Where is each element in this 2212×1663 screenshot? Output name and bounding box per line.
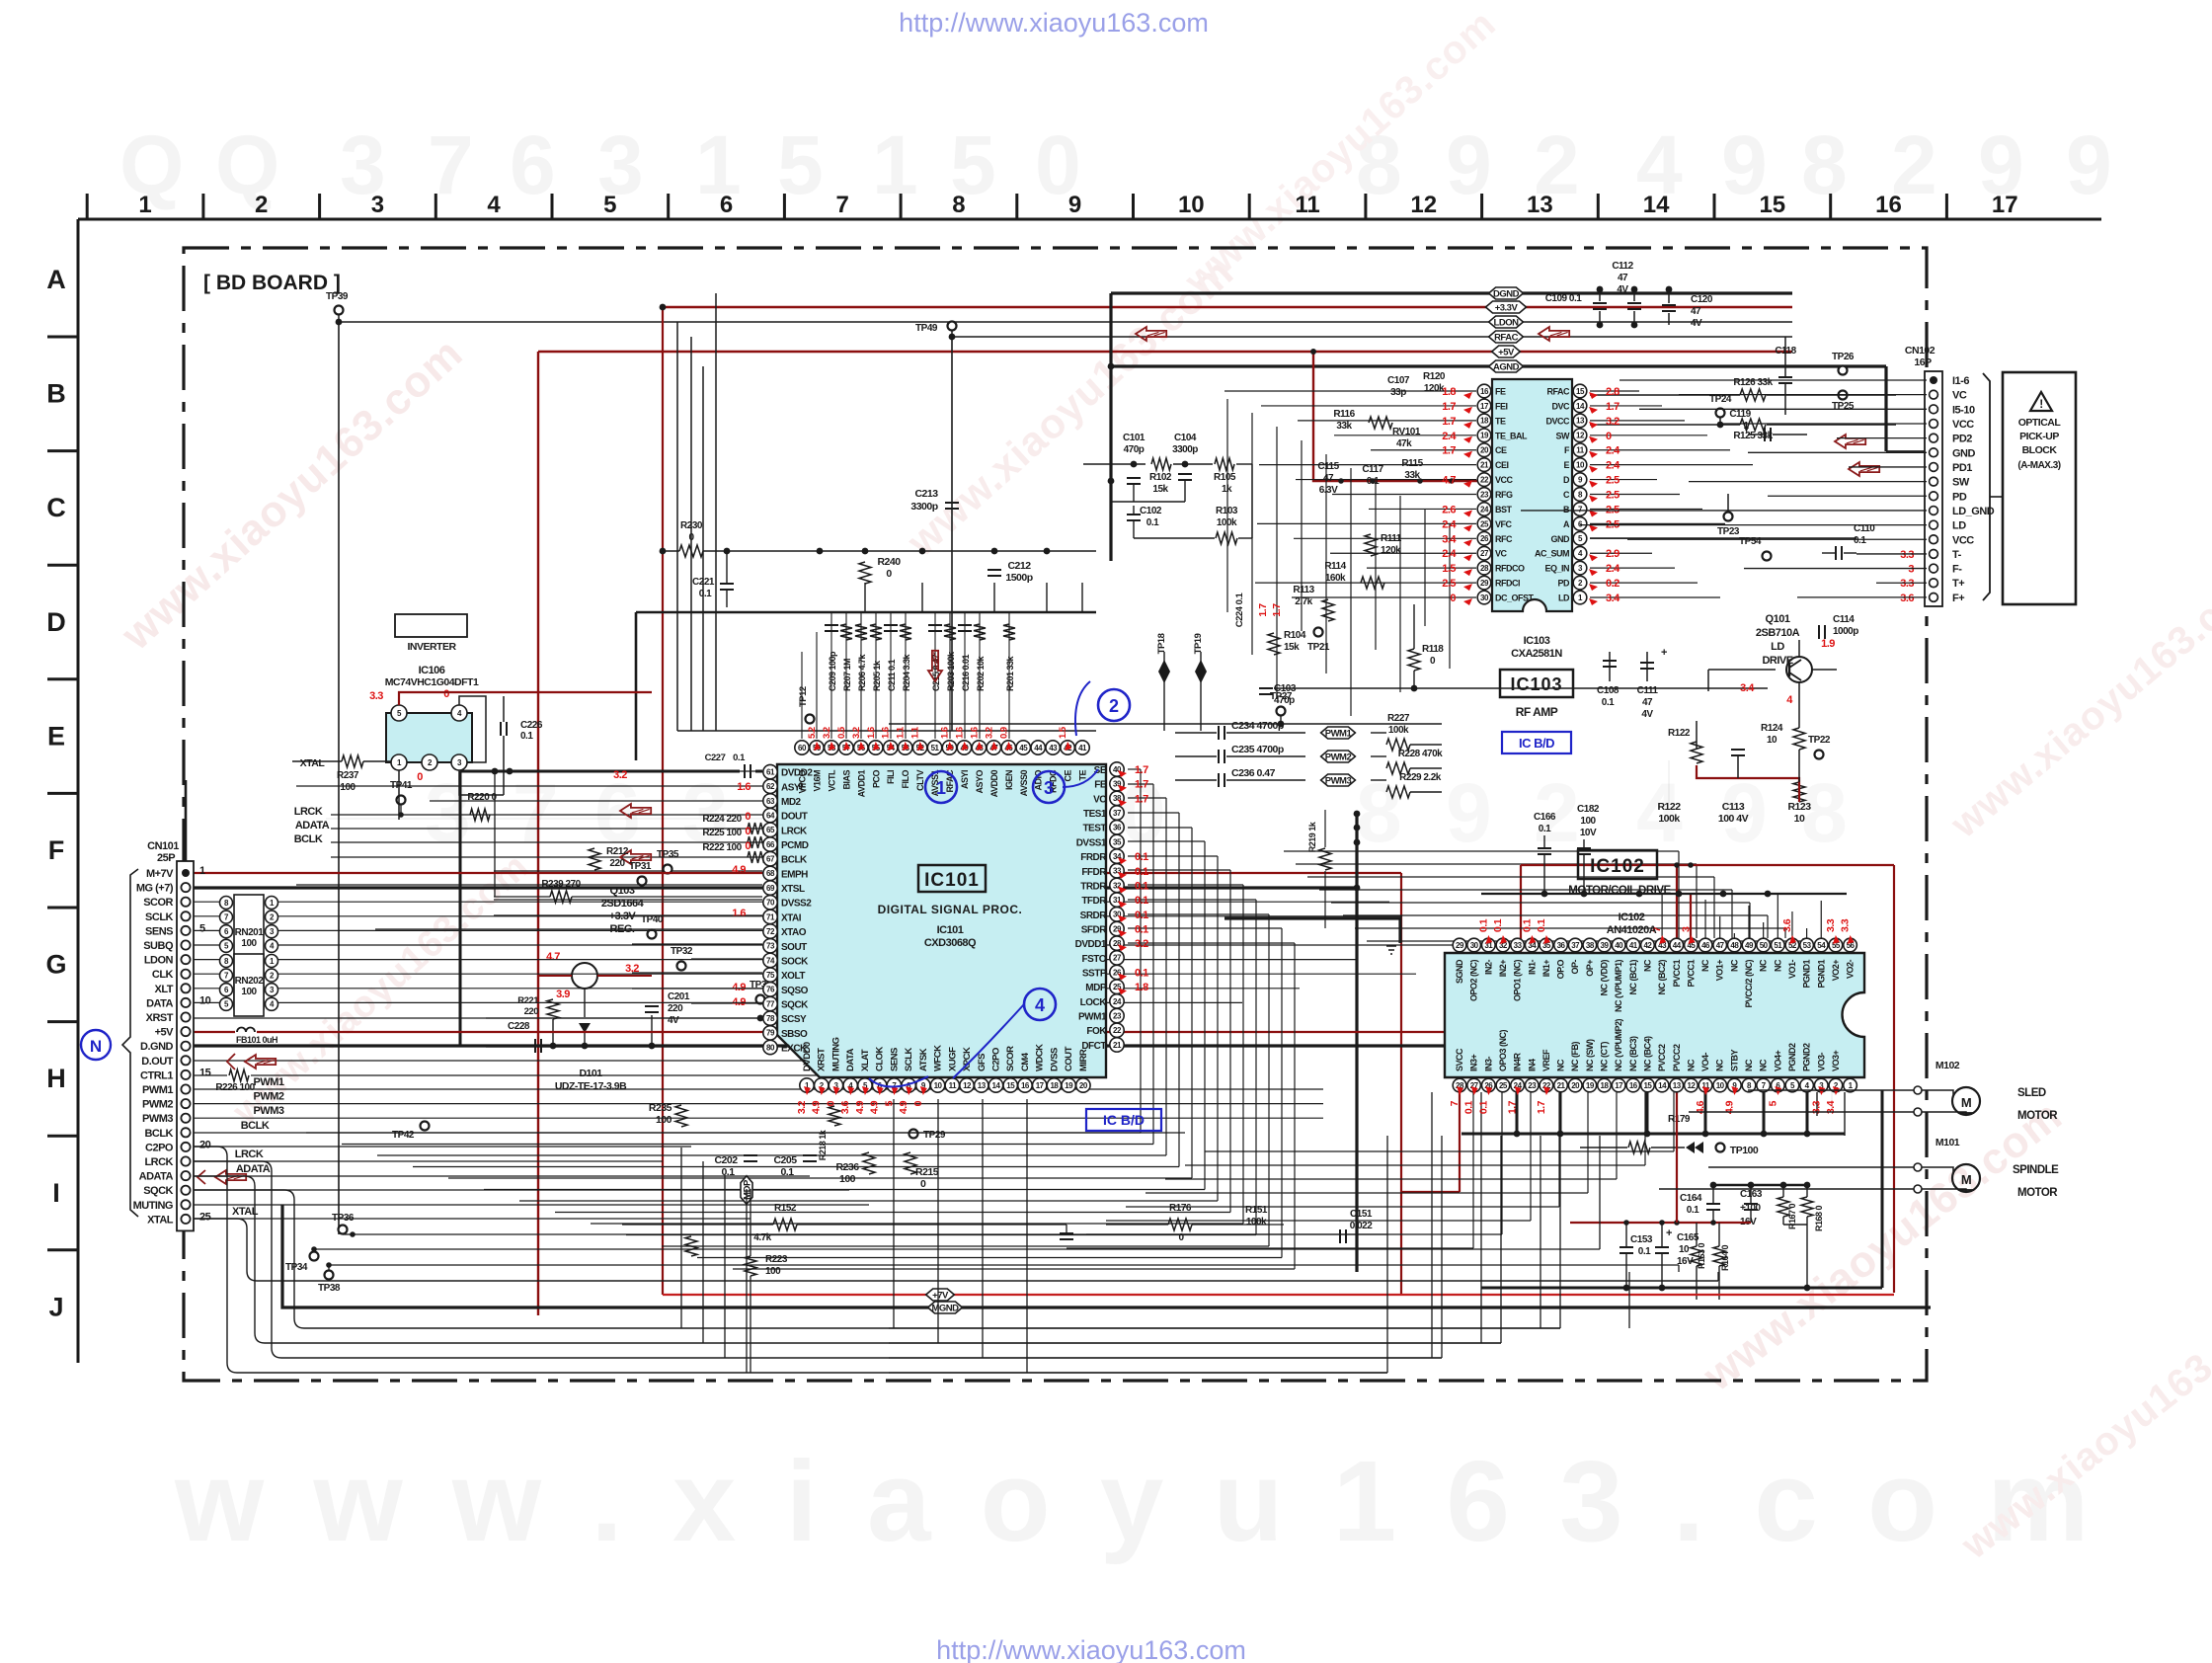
svg-text:47: 47	[1323, 473, 1334, 484]
svg-text:100 4V: 100 4V	[1718, 813, 1749, 825]
svg-text:IC102: IC102	[1619, 911, 1645, 923]
svg-text:TRDR: TRDR	[1080, 881, 1107, 892]
svg-text:PWM2: PWM2	[254, 1091, 284, 1103]
svg-text:47: 47	[1691, 306, 1701, 317]
svg-text:33: 33	[1514, 941, 1523, 950]
svg-text:FILO: FILO	[901, 770, 910, 789]
svg-text:F+: F+	[1952, 593, 1964, 604]
svg-text:BST: BST	[1495, 505, 1513, 515]
svg-text:21: 21	[1557, 1081, 1566, 1090]
svg-text:2: 2	[255, 192, 268, 218]
svg-text:2SD1664: 2SD1664	[601, 898, 645, 910]
svg-text:R203 100k: R203 100k	[946, 651, 956, 691]
svg-text:SSTP: SSTP	[1082, 969, 1107, 980]
svg-text:FB101 0uH: FB101 0uH	[236, 1035, 277, 1045]
svg-text:NC (BC2): NC (BC2)	[1657, 959, 1667, 994]
svg-text:PWM1: PWM1	[142, 1084, 173, 1096]
svg-text:1.9: 1.9	[1821, 638, 1835, 650]
svg-text:1.8: 1.8	[1135, 982, 1148, 993]
svg-text:SW: SW	[1556, 431, 1571, 440]
svg-text:CE: CE	[1495, 445, 1507, 455]
svg-text:SCSY: SCSY	[781, 1014, 807, 1025]
svg-text:TP35: TP35	[657, 849, 679, 860]
svg-text:R122: R122	[1657, 801, 1681, 813]
svg-text:IC102: IC102	[1590, 856, 1645, 877]
svg-text:M+7V: M+7V	[146, 868, 174, 880]
svg-text:51: 51	[1774, 941, 1782, 950]
svg-text:PD: PD	[1557, 579, 1570, 589]
svg-text:PCO: PCO	[871, 770, 881, 789]
svg-text:2.5: 2.5	[1606, 490, 1619, 502]
svg-text:10: 10	[1716, 1081, 1725, 1090]
svg-text:43: 43	[1049, 744, 1058, 752]
svg-text:78: 78	[766, 1014, 775, 1023]
svg-text:29: 29	[1480, 579, 1489, 588]
svg-text:SBSO: SBSO	[781, 1029, 808, 1040]
svg-text:MOTOR: MOTOR	[2017, 1110, 2058, 1122]
svg-text:C151: C151	[1350, 1209, 1373, 1220]
svg-text:9: 9	[2066, 119, 2112, 211]
svg-text:R224 220: R224 220	[702, 814, 742, 825]
svg-text:3300p: 3300p	[910, 501, 937, 513]
svg-text:IN4: IN4	[1527, 1059, 1537, 1071]
svg-text:220: 220	[668, 1003, 683, 1014]
svg-text:0.1: 0.1	[1638, 1246, 1651, 1257]
svg-text:LD: LD	[1952, 520, 1966, 532]
svg-text:40: 40	[1615, 941, 1623, 950]
svg-text:7: 7	[836, 192, 849, 218]
svg-text:3.4: 3.4	[1740, 682, 1755, 694]
svg-text:3: 3	[371, 192, 384, 218]
svg-text:XLT: XLT	[155, 984, 174, 995]
svg-text:4.7: 4.7	[1442, 475, 1456, 487]
svg-text:NC: NC	[1642, 959, 1652, 972]
svg-text:20: 20	[1079, 1081, 1088, 1090]
svg-text:TP34: TP34	[285, 1262, 308, 1273]
svg-text:22: 22	[1480, 475, 1489, 484]
svg-text:OPO2 (NC): OPO2 (NC)	[1469, 960, 1479, 1002]
svg-text:PWM2: PWM2	[142, 1099, 173, 1111]
svg-text:36: 36	[1557, 941, 1566, 950]
svg-text:R204 3.3k: R204 3.3k	[902, 653, 911, 691]
svg-text:0: 0	[825, 1100, 836, 1106]
svg-text:VCC: VCC	[1952, 419, 1974, 431]
svg-text:OP.O: OP.O	[1556, 960, 1566, 980]
svg-text:4.9: 4.9	[854, 1100, 866, 1114]
svg-text:R207 1M: R207 1M	[842, 659, 852, 691]
svg-text:TP27: TP27	[1270, 691, 1293, 702]
svg-text:3.4: 3.4	[1442, 533, 1457, 545]
svg-text:R126 33k: R126 33k	[1733, 377, 1773, 388]
svg-text:11: 11	[949, 1081, 958, 1090]
svg-text:C226: C226	[520, 720, 543, 731]
svg-text:C112: C112	[1612, 261, 1633, 272]
svg-text:5: 5	[883, 1100, 895, 1106]
svg-text:TEST: TEST	[1082, 824, 1106, 834]
svg-text:0.1: 0.1	[1492, 918, 1504, 932]
svg-text:PWM1: PWM1	[254, 1076, 284, 1088]
svg-text:+5V: +5V	[155, 1027, 175, 1039]
svg-text:0.1: 0.1	[1854, 535, 1866, 546]
svg-text:UDZ-TE-17-3.9B: UDZ-TE-17-3.9B	[555, 1080, 627, 1092]
svg-text:R201 33k: R201 33k	[1005, 655, 1015, 691]
svg-text:C: C	[46, 493, 66, 522]
svg-text:0: 0	[745, 840, 750, 852]
svg-text:75: 75	[766, 971, 775, 980]
svg-text:0.9: 0.9	[998, 727, 1009, 739]
svg-text:13: 13	[1576, 417, 1585, 426]
svg-text:XUGF: XUGF	[947, 1047, 958, 1071]
svg-text:10: 10	[1794, 813, 1805, 825]
svg-text:TP12: TP12	[798, 686, 809, 707]
svg-text:5: 5	[603, 192, 616, 218]
svg-text:DVC: DVC	[1551, 401, 1570, 411]
svg-text:PGND1: PGND1	[1816, 960, 1826, 989]
svg-text:PD2: PD2	[1952, 434, 1972, 445]
svg-text:76: 76	[766, 986, 775, 994]
svg-text:LRCK: LRCK	[144, 1156, 173, 1168]
svg-text:VCC: VCC	[1495, 475, 1514, 485]
svg-text:R167 0: R167 0	[1787, 1203, 1797, 1229]
svg-text:9: 9	[1446, 119, 1492, 211]
svg-text:51: 51	[931, 744, 940, 752]
svg-text:8: 8	[1801, 766, 1848, 859]
svg-text:0: 0	[886, 568, 892, 580]
svg-text:XTAL: XTAL	[147, 1214, 174, 1226]
svg-text:27: 27	[1480, 549, 1489, 558]
svg-text:46: 46	[1701, 941, 1710, 950]
svg-text:0.1: 0.1	[1463, 1100, 1475, 1114]
svg-text:0.1: 0.1	[520, 731, 533, 742]
svg-text:D101: D101	[579, 1068, 602, 1079]
svg-text:R221: R221	[517, 995, 539, 1006]
svg-text:62: 62	[766, 782, 775, 791]
svg-text:220: 220	[524, 1006, 539, 1017]
svg-text:PWM2: PWM2	[1325, 752, 1352, 763]
svg-text:T-: T-	[1952, 549, 1962, 561]
svg-text:VFC: VFC	[1495, 519, 1513, 529]
svg-text:C205: C205	[773, 1154, 797, 1166]
svg-text:13: 13	[978, 1081, 987, 1090]
svg-text:19: 19	[1480, 432, 1489, 440]
svg-text:14: 14	[1658, 1081, 1667, 1090]
svg-text:IN3-: IN3-	[1483, 1056, 1493, 1071]
svg-text:SRDR: SRDR	[1080, 911, 1108, 921]
svg-text:19: 19	[1065, 1081, 1073, 1090]
svg-text:3.2: 3.2	[1135, 938, 1148, 950]
svg-text:36: 36	[1113, 824, 1122, 832]
svg-text:2.9: 2.9	[1606, 548, 1619, 560]
svg-text:1.1: 1.1	[896, 726, 907, 739]
svg-text:SOUT: SOUT	[781, 942, 807, 953]
svg-text:M: M	[1961, 1095, 1971, 1110]
svg-text:SLED: SLED	[2017, 1087, 2046, 1099]
svg-text:PVCC/2 (NC): PVCC/2 (NC)	[1744, 960, 1754, 1008]
svg-text:LDON: LDON	[144, 955, 174, 967]
svg-text:0.1: 0.1	[1367, 476, 1380, 487]
svg-text:4: 4	[1035, 995, 1045, 1015]
svg-text:2.4: 2.4	[1442, 518, 1457, 530]
svg-text:CXA2581N: CXA2581N	[1511, 648, 1562, 660]
svg-text:STBY: STBY	[1729, 1050, 1739, 1072]
svg-text:TP32: TP32	[671, 946, 693, 957]
svg-text:3.9: 3.9	[556, 989, 570, 1000]
svg-text:10: 10	[934, 1081, 943, 1090]
svg-text:1.6: 1.6	[940, 727, 951, 739]
svg-text:DGND: DGND	[1493, 289, 1520, 300]
svg-text:TP24: TP24	[1709, 394, 1732, 405]
svg-text:DATA: DATA	[845, 1048, 856, 1071]
svg-text:0.2: 0.2	[1606, 578, 1619, 590]
svg-text:1.7: 1.7	[1135, 779, 1148, 791]
svg-text:70: 70	[766, 899, 775, 908]
svg-text:0.1: 0.1	[1135, 968, 1148, 980]
svg-text:20: 20	[1480, 446, 1489, 455]
svg-text:ADATA: ADATA	[139, 1171, 174, 1183]
svg-text:FRDR: FRDR	[1080, 852, 1107, 863]
svg-text:69: 69	[766, 884, 775, 893]
svg-text:TP39: TP39	[326, 291, 349, 302]
svg-text:2.4: 2.4	[1606, 563, 1620, 575]
svg-text:4.9: 4.9	[732, 864, 746, 876]
svg-text:2.5: 2.5	[1442, 578, 1456, 590]
svg-text:R123: R123	[1787, 801, 1811, 813]
svg-text:R225 100: R225 100	[702, 828, 742, 838]
svg-text:VO3-: VO3-	[1816, 1052, 1826, 1071]
svg-text:33k: 33k	[1404, 470, 1420, 481]
svg-text:53: 53	[1803, 941, 1812, 950]
svg-text:2.4: 2.4	[1606, 445, 1620, 457]
svg-text:41: 41	[1078, 744, 1087, 752]
svg-text:SE: SE	[1094, 765, 1107, 776]
svg-text:VC: VC	[1952, 390, 1967, 402]
svg-text:NC (BC1): NC (BC1)	[1628, 959, 1638, 994]
svg-text:Q101: Q101	[1766, 613, 1790, 625]
svg-text:REG.: REG.	[610, 923, 635, 935]
svg-text:IC101: IC101	[924, 870, 980, 891]
svg-text:R125 33k: R125 33k	[1733, 431, 1773, 441]
svg-text:1.6: 1.6	[732, 908, 746, 919]
svg-text:68: 68	[766, 869, 775, 878]
svg-text:SQCK: SQCK	[781, 999, 809, 1010]
svg-text:MG (+7): MG (+7)	[136, 883, 174, 895]
svg-text:VO1+: VO1+	[1715, 960, 1725, 982]
svg-text:R179: R179	[1668, 1114, 1691, 1125]
svg-text:IC B/D: IC B/D	[1103, 1112, 1145, 1128]
svg-text:28: 28	[1480, 564, 1489, 573]
svg-text:2: 2	[1109, 696, 1119, 716]
svg-text:http://www.xiaoyu163.com: http://www.xiaoyu163.com	[936, 1635, 1246, 1663]
svg-text:72: 72	[766, 927, 775, 936]
svg-text:IGEN: IGEN	[1004, 770, 1014, 790]
svg-text:3.2: 3.2	[796, 1100, 808, 1114]
svg-text:12: 12	[1687, 1081, 1696, 1090]
svg-text:H: H	[46, 1064, 66, 1093]
svg-text:XRST: XRST	[146, 1012, 174, 1024]
svg-text:PWM3: PWM3	[254, 1105, 284, 1117]
svg-text:AVDD0: AVDD0	[989, 770, 999, 798]
svg-text:C: C	[1563, 490, 1570, 500]
svg-text:3.2: 3.2	[984, 727, 994, 739]
svg-text:0.1: 0.1	[1135, 923, 1148, 935]
svg-text:0: 0	[417, 771, 423, 783]
svg-text:GND: GND	[1551, 534, 1571, 544]
svg-text:47: 47	[1716, 941, 1725, 950]
svg-text:FFDR: FFDR	[1081, 867, 1107, 878]
svg-text:12: 12	[1410, 192, 1437, 218]
svg-text:4.9: 4.9	[869, 1100, 881, 1114]
svg-text:MIRR: MIRR	[1078, 1049, 1089, 1071]
svg-text:VO2+: VO2+	[1831, 960, 1841, 982]
svg-text:0.1: 0.1	[1602, 697, 1615, 708]
svg-text:3.2: 3.2	[851, 727, 862, 739]
svg-text:J: J	[48, 1292, 63, 1321]
svg-text:D: D	[1563, 475, 1570, 485]
svg-text:R120: R120	[1423, 371, 1446, 382]
svg-text:LD_GND: LD_GND	[1952, 506, 1995, 517]
svg-text:TP42: TP42	[392, 1130, 415, 1141]
svg-text:TFDR: TFDR	[1081, 896, 1107, 907]
svg-text:RF AMP: RF AMP	[1516, 705, 1558, 719]
svg-text:IC101: IC101	[937, 924, 964, 936]
svg-text:1.1: 1.1	[910, 726, 921, 739]
svg-text:1.7: 1.7	[1536, 1100, 1547, 1114]
svg-text:1.5: 1.5	[1442, 563, 1456, 575]
svg-text:C236 0.47: C236 0.47	[1231, 767, 1276, 779]
svg-text:C104: C104	[1174, 433, 1197, 443]
svg-text:0: 0	[1606, 431, 1612, 442]
svg-text:7: 7	[513, 766, 559, 859]
svg-text:TP41: TP41	[390, 780, 413, 791]
svg-text:71: 71	[766, 912, 775, 921]
svg-text:TP18: TP18	[1156, 633, 1167, 654]
svg-text:25P: 25P	[157, 852, 175, 864]
svg-text:4.9: 4.9	[732, 982, 746, 993]
svg-text:+: +	[1661, 647, 1667, 659]
svg-text:0.5: 0.5	[836, 726, 847, 739]
svg-text:100: 100	[241, 987, 257, 997]
svg-text:NC (FB): NC (FB)	[1570, 1042, 1580, 1071]
svg-text:0.1: 0.1	[1135, 910, 1148, 921]
svg-text:WDCK: WDCK	[1035, 1044, 1046, 1071]
svg-text:16P: 16P	[1914, 356, 1932, 368]
svg-text:R111: R111	[1381, 533, 1402, 544]
svg-text:N: N	[90, 1037, 102, 1056]
svg-text:BCLK: BCLK	[294, 833, 323, 845]
svg-text:R116: R116	[1333, 409, 1355, 420]
svg-text:R223: R223	[765, 1254, 788, 1265]
svg-text:5: 5	[199, 922, 205, 934]
svg-text:IN3+: IN3+	[1469, 1054, 1479, 1071]
svg-text:C117: C117	[1362, 464, 1383, 475]
svg-text:4V: 4V	[668, 1015, 679, 1026]
svg-text:NC (VDD): NC (VDD)	[1600, 960, 1610, 996]
svg-text:DIGITAL SIGNAL PROC.: DIGITAL SIGNAL PROC.	[878, 903, 1023, 916]
svg-text:MOTOR: MOTOR	[2017, 1187, 2058, 1199]
svg-text:LD: LD	[1558, 594, 1570, 603]
svg-text:1.7: 1.7	[1135, 793, 1148, 805]
svg-text:C113: C113	[1722, 801, 1745, 813]
svg-text:C216 0.01: C216 0.01	[961, 654, 971, 691]
svg-text:18: 18	[1480, 417, 1489, 426]
svg-text:23: 23	[1528, 1081, 1537, 1090]
svg-text:1.6: 1.6	[954, 727, 965, 739]
svg-text:TP49: TP49	[915, 323, 938, 334]
svg-text:IC B/D: IC B/D	[1519, 736, 1554, 751]
svg-text:1: 1	[695, 119, 742, 211]
svg-text:V16M: V16M	[812, 770, 822, 792]
svg-text:C120: C120	[1691, 294, 1713, 305]
svg-text:0: 0	[920, 1178, 926, 1190]
svg-text:EMPH: EMPH	[781, 869, 808, 880]
svg-text:R102: R102	[1149, 472, 1172, 483]
svg-text:R240: R240	[877, 556, 901, 568]
svg-text:LRCK: LRCK	[294, 806, 323, 818]
svg-text:SW: SW	[1952, 477, 1970, 489]
svg-text:IC103: IC103	[1510, 674, 1562, 694]
svg-text:73: 73	[766, 942, 775, 951]
svg-text:NC: NC	[1700, 959, 1710, 972]
svg-text:45: 45	[1019, 744, 1028, 752]
svg-text:IN1-: IN1-	[1527, 960, 1537, 976]
svg-text:2.5: 2.5	[1606, 475, 1619, 487]
svg-text:6: 6	[510, 119, 556, 211]
svg-text:30: 30	[1470, 941, 1479, 950]
svg-text:IC106: IC106	[419, 665, 445, 676]
svg-text:SENS: SENS	[145, 925, 173, 937]
svg-text:BLOCK: BLOCK	[2022, 444, 2058, 456]
svg-text:0.1: 0.1	[1135, 851, 1148, 863]
svg-text:VREF: VREF	[1541, 1049, 1551, 1071]
svg-text:GFS: GFS	[977, 1054, 987, 1071]
svg-text:16: 16	[1875, 192, 1902, 218]
svg-text:BCLK: BCLK	[241, 1120, 270, 1132]
svg-text:http://www.xiaoyu163.com: http://www.xiaoyu163.com	[899, 8, 1209, 38]
svg-text:15: 15	[1759, 192, 1785, 218]
svg-text:25: 25	[1499, 1081, 1508, 1090]
svg-text:23: 23	[1113, 1011, 1122, 1020]
svg-text:VPCO: VPCO	[798, 770, 808, 794]
svg-text:0: 0	[443, 688, 449, 700]
svg-text:C227: C227	[705, 752, 726, 763]
svg-text:MGND: MGND	[931, 1304, 959, 1314]
svg-text:R222 100: R222 100	[702, 842, 742, 853]
svg-text:C153: C153	[1630, 1234, 1653, 1245]
svg-text:M101: M101	[1935, 1137, 1960, 1148]
svg-text:NC: NC	[1759, 959, 1769, 972]
svg-text:OPTICAL: OPTICAL	[2018, 417, 2062, 429]
svg-text:VO4+: VO4+	[1773, 1050, 1782, 1071]
svg-text:1.7: 1.7	[1606, 401, 1619, 413]
svg-text:11: 11	[1295, 192, 1319, 218]
svg-text:ASYI: ASYI	[960, 770, 970, 789]
svg-text:12: 12	[1576, 432, 1585, 440]
svg-text:LDON: LDON	[1494, 318, 1520, 329]
svg-text:3.3: 3.3	[1900, 549, 1914, 561]
svg-text:(A-MAX.3): (A-MAX.3)	[2017, 460, 2060, 471]
svg-text:17: 17	[1480, 402, 1489, 411]
svg-text:FE: FE	[1094, 780, 1107, 791]
svg-text:E: E	[47, 721, 65, 751]
svg-text:6.3V: 6.3V	[1319, 485, 1338, 496]
svg-text:1000p: 1000p	[1833, 626, 1858, 637]
svg-text:XTSL: XTSL	[781, 884, 805, 895]
svg-text:2SB710A: 2SB710A	[1756, 627, 1800, 639]
svg-text:RFC: RFC	[1495, 534, 1513, 544]
svg-text:R220 0: R220 0	[467, 792, 497, 803]
svg-text:25: 25	[199, 1211, 211, 1223]
svg-text:CN102: CN102	[1905, 345, 1935, 356]
